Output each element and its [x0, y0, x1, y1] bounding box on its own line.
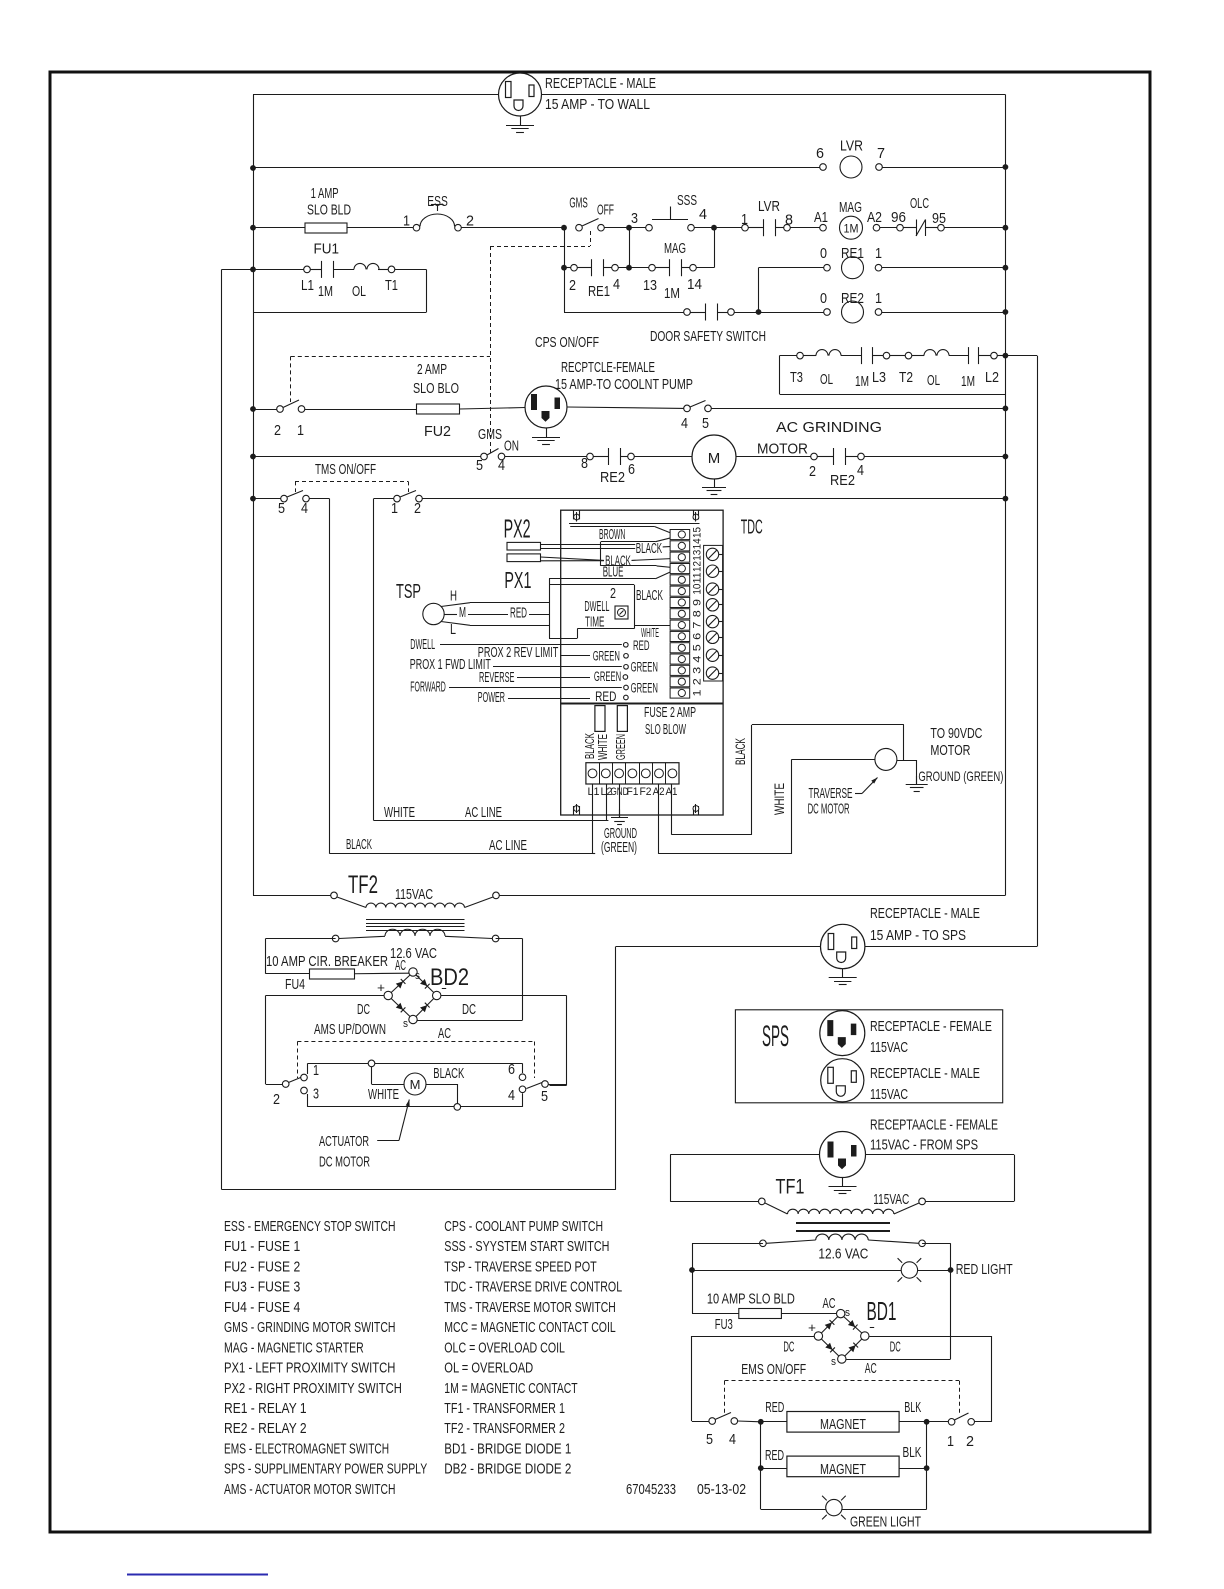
svg-text:LVR: LVR [840, 138, 863, 155]
svg-text:AMS UP/DOWN: AMS UP/DOWN [314, 1021, 386, 1038]
contact 1M right [968, 347, 970, 364]
wire right outer bus [1037, 356, 1039, 947]
svg-text:TMS - TRAVERSE MOTOR SWITCH: TMS - TRAVERSE MOTOR SWITCH [444, 1299, 615, 1316]
svg-text:8: 8 [785, 212, 793, 229]
svg-text:10 AMP CIR. BREAKER: 10 AMP CIR. BREAKER [266, 953, 388, 970]
node GMS common [561, 225, 567, 231]
switch ESS emergency stop [413, 224, 420, 231]
svg-text:6: 6 [816, 145, 824, 162]
linkage CPS dashed [290, 356, 292, 402]
svg-text:67045233: 67045233 [626, 1481, 676, 1498]
wire receptacle to switch 4-5 [567, 407, 684, 408]
switch door safety [684, 309, 691, 316]
svg-text:BLK: BLK [903, 1444, 922, 1461]
svg-text:5: 5 [278, 500, 285, 517]
svg-text:RE1: RE1 [588, 283, 610, 300]
coil RE2 [759, 312, 824, 314]
wire A2 white [658, 784, 660, 854]
svg-text:s: s [845, 1307, 850, 1319]
switch GMS 5-4 [481, 453, 488, 460]
wire bundle outline [549, 579, 551, 638]
wire white ac line [374, 820, 609, 822]
svg-text:TRAVERSE: TRAVERSE [809, 785, 853, 802]
svg-text:2: 2 [466, 213, 474, 230]
svg-text:6: 6 [628, 461, 635, 478]
svg-text:05-13-02: 05-13-02 [697, 1481, 746, 1498]
bridge rectifier BD2 [391, 975, 410, 993]
svg-text:TDC: TDC [741, 516, 763, 538]
fuse FU1 [305, 223, 347, 233]
svg-text:115VAC: 115VAC [873, 1191, 909, 1208]
svg-text:OL: OL [820, 371, 833, 388]
transformer TF2 primary [253, 895, 331, 897]
svg-text:A1: A1 [814, 209, 828, 226]
wire fu1 loop [253, 269, 304, 271]
svg-text:AC: AC [395, 957, 406, 974]
svg-text:1M = MAGNETIC CONTACT: 1M = MAGNETIC CONTACT [444, 1380, 577, 1397]
switch AMS right [542, 1081, 549, 1088]
svg-text:RECEPTACLE - MALE: RECEPTACLE - MALE [545, 75, 656, 92]
svg-text:A2: A2 [867, 209, 882, 226]
svg-text:1M: 1M [664, 285, 680, 302]
svg-text:BLACK: BLACK [732, 738, 748, 765]
svg-text:MAGNET: MAGNET [820, 1461, 866, 1478]
ams loop rails [308, 1063, 523, 1065]
svg-text:DOOR SAFETY SWITCH: DOOR SAFETY SWITCH [650, 328, 766, 345]
switch SSS system start [646, 224, 653, 231]
switch EMS 1-2 [927, 1421, 949, 1423]
svg-text:2: 2 [966, 1433, 974, 1450]
svg-text:AC: AC [823, 1295, 836, 1312]
svg-text:L3: L3 [872, 369, 886, 386]
svg-text:s: s [831, 1356, 836, 1368]
tdc mount tab top right [693, 510, 695, 519]
svg-text:DC: DC [357, 1001, 370, 1018]
svg-text:(GREEN): (GREEN) [601, 839, 637, 856]
svg-text:PX1: PX1 [504, 567, 531, 593]
svg-text:GMS: GMS [569, 195, 587, 212]
wire L2 to right [1005, 355, 1037, 357]
svg-text:FU4: FU4 [285, 976, 305, 993]
transformer TF1 primary [670, 1201, 758, 1203]
contact RE1 2-4 [571, 264, 578, 271]
svg-text:2: 2 [809, 463, 816, 480]
pin T3 [797, 352, 804, 359]
svg-text:FU3 - FUSE 3: FU3 - FUSE 3 [224, 1279, 300, 1296]
wire TSP H [441, 603, 470, 607]
svg-text:14: 14 [692, 538, 704, 549]
terminal strip 15 [670, 530, 690, 540]
controller TDC box [561, 510, 723, 815]
svg-text:SPS: SPS [762, 1020, 789, 1053]
wire ems to magnet [738, 1420, 761, 1423]
svg-text:FUSE 2 AMP: FUSE 2 AMP [644, 704, 696, 721]
svg-text:CPS ON/OFF: CPS ON/OFF [535, 334, 599, 351]
switch 4-5 [684, 405, 691, 412]
svg-text:WHITE: WHITE [771, 783, 787, 815]
svg-text:ON: ON [504, 438, 519, 455]
svg-text:OL = OVERLOAD: OL = OVERLOAD [444, 1360, 533, 1377]
svg-text:1: 1 [692, 690, 704, 697]
contact LVR [742, 224, 749, 231]
switch EMS 5-4 [691, 1420, 693, 1423]
svg-text:TSP - TRAVERSE SPEED POT: TSP - TRAVERSE SPEED POT [444, 1258, 596, 1275]
wire grinding row [253, 456, 481, 458]
svg-text:F1: F1 [627, 786, 639, 798]
contact RE2 8-6 [587, 453, 594, 460]
fuse FU4 [266, 973, 310, 975]
svg-text:14: 14 [687, 276, 702, 293]
power supply SPS box [735, 1010, 1002, 1103]
svg-text:9: 9 [692, 599, 704, 606]
svg-text:RE2 - RELAY 2: RE2 - RELAY 2 [224, 1420, 307, 1437]
svg-text:SPS - SUPPLIMENTARY POWER SUPP: SPS - SUPPLIMENTARY POWER SUPPLY [224, 1461, 427, 1478]
svg-text:BLACK: BLACK [433, 1065, 464, 1082]
wire top right [542, 94, 1006, 96]
wire L2 white [606, 784, 608, 821]
svg-text:H: H [450, 588, 457, 605]
svg-text:CPS - COOLANT PUMP SWITCH: CPS - COOLANT PUMP SWITCH [444, 1218, 603, 1235]
svg-text:s: s [403, 1018, 408, 1030]
svg-text:2: 2 [414, 500, 421, 517]
wire px leads [541, 544, 636, 546]
svg-text:FU2: FU2 [424, 423, 451, 440]
wire secondary left [266, 938, 336, 940]
svg-text:TF2: TF2 [348, 871, 378, 899]
wire TMS to bus [422, 498, 1005, 500]
node after SSS [711, 225, 717, 231]
svg-text:5: 5 [702, 415, 709, 432]
svg-text:3: 3 [313, 1086, 319, 1103]
contact 1M left [861, 347, 863, 364]
svg-text:1: 1 [875, 290, 882, 307]
pin L1 [304, 266, 311, 273]
motor M ac grinding [634, 456, 692, 458]
svg-text:TF2 - TRANSFORMER 2: TF2 - TRANSFORMER 2 [444, 1420, 565, 1437]
wire CPS to FU2 [305, 409, 417, 411]
wire to MAG coil [791, 227, 820, 229]
linkage GMS dashed [590, 231, 592, 246]
svg-text:10 AMP SLO BLD: 10 AMP SLO BLD [707, 1290, 795, 1307]
svg-text:3: 3 [631, 210, 638, 227]
svg-text:6: 6 [692, 633, 704, 640]
switch TMS 1-2 [374, 498, 394, 500]
svg-text:2 AMP: 2 AMP [417, 361, 447, 378]
svg-text:BLUE: BLUE [603, 563, 624, 580]
footer link line [127, 1574, 268, 1576]
svg-text:RE2: RE2 [600, 469, 625, 486]
receptacle J2 female coolant pump [525, 386, 567, 428]
wire main row [253, 227, 305, 229]
svg-text:15: 15 [692, 527, 704, 538]
svg-text:L2: L2 [985, 369, 999, 386]
svg-text:ESS: ESS [427, 193, 448, 210]
wire L1 black [592, 784, 594, 854]
svg-text:1: 1 [403, 213, 410, 230]
svg-text:TDC - TRAVERSE DRIVE CONTROL: TDC - TRAVERSE DRIVE CONTROL [444, 1279, 622, 1296]
svg-text:BLK: BLK [904, 1399, 921, 1416]
svg-text:BD1 - BRIDGE DIODE 1: BD1 - BRIDGE DIODE 1 [444, 1440, 571, 1457]
svg-text:1: 1 [297, 422, 304, 439]
wire bd2 minus [441, 995, 567, 997]
svg-text:T2: T2 [899, 369, 913, 386]
terminal strip lower [586, 763, 679, 784]
svg-text:2: 2 [274, 422, 281, 439]
wire A1 black [671, 784, 673, 835]
svg-text:GROUND (GREEN): GROUND (GREEN) [918, 768, 1003, 784]
wire GMS to node3 [605, 227, 646, 229]
svg-text:+: + [808, 1320, 816, 1335]
svg-text:4: 4 [301, 500, 308, 517]
wire motor to ground [897, 760, 917, 762]
svg-text:GMS - GRINDING MOTOR SWITCH: GMS - GRINDING MOTOR SWITCH [224, 1319, 395, 1336]
svg-text:L1: L1 [301, 277, 314, 294]
receptacle J1 male 15A to wall [499, 73, 542, 116]
svg-text:15 AMP-TO COOLNT PUMP: 15 AMP-TO COOLNT PUMP [555, 376, 693, 393]
wire motor to contact [736, 456, 811, 458]
svg-text:ESS - EMERGENCY STOP SWITCH: ESS - EMERGENCY STOP SWITCH [224, 1218, 395, 1235]
tdc mount tab bottom left [573, 806, 575, 815]
svg-text:DC: DC [890, 1339, 901, 1356]
wire black flag 2 [600, 542, 602, 566]
svg-text:MCC = MAGNETIC CONTACT COIL: MCC = MAGNETIC CONTACT COIL [444, 1319, 615, 1336]
svg-text:5: 5 [706, 1431, 713, 1448]
svg-text:TF1: TF1 [776, 1176, 805, 1199]
svg-text:6: 6 [508, 1061, 515, 1078]
svg-text:RE1 - RELAY 1: RE1 - RELAY 1 [224, 1400, 307, 1417]
svg-text:5: 5 [692, 644, 704, 651]
wire door safety row [564, 312, 684, 314]
svg-text:DC MOTOR: DC MOTOR [808, 801, 850, 818]
receptacle sps male [821, 1059, 864, 1102]
coil RE1 [759, 267, 824, 269]
svg-text:FU3: FU3 [715, 1316, 733, 1333]
linkage TMS dashed [295, 481, 297, 492]
svg-text:SLO BLO: SLO BLO [413, 380, 459, 397]
svg-text:15 AMP - TO WALL: 15 AMP - TO WALL [545, 96, 650, 113]
fuse FU2 [417, 404, 460, 414]
svg-text:MAG: MAG [664, 240, 686, 257]
svg-text:12.6 VAC: 12.6 VAC [818, 1246, 868, 1263]
svg-text:AC GRINDING: AC GRINDING [776, 419, 882, 436]
wire TSP M red [444, 614, 457, 616]
svg-text:ACTUATOR: ACTUATOR [319, 1133, 369, 1150]
contact RE2 2-4 [811, 453, 818, 460]
svg-text:REVERSE: REVERSE [479, 669, 515, 686]
svg-text:M: M [459, 604, 466, 621]
svg-text:L: L [450, 621, 456, 638]
tdc mount tab bottom right [693, 806, 695, 815]
svg-text:FU1 - FUSE 1: FU1 - FUSE 1 [224, 1238, 300, 1255]
svg-text:115VAC: 115VAC [870, 1086, 908, 1103]
svg-text:1M: 1M [844, 223, 859, 235]
svg-text:RE1: RE1 [841, 245, 864, 262]
motor M actuator [371, 1067, 373, 1084]
ams loop right [519, 1074, 526, 1081]
switch GMS grinding motor [576, 224, 583, 231]
potentiometer TSP traverse speed [423, 603, 444, 624]
svg-text:0: 0 [820, 290, 827, 307]
overload coil OLC [897, 224, 904, 231]
pin L2 [991, 352, 998, 359]
ams loop left [301, 1074, 308, 1081]
transformer TF2 secondary [332, 935, 339, 942]
transformer TF1 core [796, 1222, 890, 1224]
svg-text:4: 4 [613, 276, 620, 293]
svg-text:PX2 - RIGHT PROXIMITY SWITCH: PX2 - RIGHT PROXIMITY SWITCH [224, 1380, 402, 1397]
receptacle sps female [820, 1011, 865, 1056]
electromagnet 2 [787, 1456, 899, 1477]
svg-text:EMS ON/OFF: EMS ON/OFF [741, 1361, 806, 1378]
wire OLC to bus [945, 227, 1006, 229]
svg-text:PX2: PX2 [504, 514, 531, 544]
wire outer box left [221, 269, 223, 1189]
svg-text:F2: F2 [640, 786, 652, 798]
svg-text:1M: 1M [318, 283, 333, 300]
svg-text:RE2: RE2 [841, 290, 864, 307]
svg-text:OL: OL [352, 283, 366, 300]
wire TMS left down [309, 498, 329, 500]
svg-text:MOTOR: MOTOR [757, 441, 808, 458]
svg-text:1: 1 [875, 245, 882, 262]
svg-text:GREEN LIGHT: GREEN LIGHT [850, 1514, 921, 1531]
svg-text:OL: OL [927, 372, 940, 389]
wire to OLC [880, 227, 897, 229]
linkage ams dashed [297, 1041, 534, 1043]
fuse F1 tdc [595, 706, 605, 732]
svg-text:BLACK: BLACK [346, 836, 372, 853]
switch AMS left [266, 1084, 283, 1086]
svg-text:0: 0 [820, 245, 827, 262]
svg-text:1: 1 [391, 500, 398, 517]
svg-text:DC: DC [783, 1339, 794, 1356]
svg-text:4: 4 [857, 462, 864, 479]
wire GND green [619, 784, 621, 818]
svg-text:RE2: RE2 [830, 472, 855, 489]
bridge rectifier BD1 [821, 1317, 837, 1333]
svg-text:DC MOTOR: DC MOTOR [319, 1153, 370, 1170]
wire bd1 minus [869, 1336, 991, 1338]
svg-text:1M: 1M [961, 373, 975, 390]
svg-text:AC LINE: AC LINE [489, 837, 527, 854]
linkage ems dashed [725, 1380, 960, 1382]
svg-text:BLACK: BLACK [636, 587, 663, 604]
svg-text:OLC = OVERLOAD COIL: OLC = OVERLOAD COIL [444, 1339, 565, 1356]
svg-text:12: 12 [692, 561, 704, 572]
wire to LVR contact [714, 227, 742, 229]
lamp green light [761, 1509, 826, 1511]
svg-text:FU2 - FUSE 2: FU2 - FUSE 2 [224, 1258, 300, 1275]
svg-text:4: 4 [498, 457, 505, 474]
svg-text:4: 4 [729, 1431, 736, 1448]
svg-text:TO 90VDC: TO 90VDC [930, 725, 982, 742]
pin T2 [905, 352, 912, 359]
svg-text:1: 1 [741, 211, 748, 228]
pin L3 [883, 352, 890, 359]
svg-text:4: 4 [692, 656, 704, 663]
svg-text:4: 4 [699, 206, 707, 223]
electromagnet 1 [787, 1412, 899, 1433]
svg-text:-: - [869, 1319, 875, 1334]
svg-text:BD2: BD2 [430, 964, 469, 991]
svg-text:AMS - ACTUATOR MOTOR SWITCH: AMS - ACTUATOR MOTOR SWITCH [224, 1481, 395, 1498]
wire black ac line [330, 853, 596, 855]
svg-text:RED: RED [595, 689, 616, 704]
svg-text:FU4 - FUSE 4: FU4 - FUSE 4 [224, 1299, 300, 1316]
svg-text:10: 10 [692, 584, 704, 595]
svg-text:GREEN: GREEN [631, 681, 658, 696]
svg-text:MAG - MAGNETIC STARTER: MAG - MAGNETIC STARTER [224, 1339, 364, 1356]
svg-text:1M: 1M [855, 373, 869, 390]
svg-text:2: 2 [692, 678, 704, 685]
svg-text:WHITE: WHITE [595, 734, 610, 760]
svg-text:T1: T1 [385, 277, 398, 294]
wire overload row [780, 355, 797, 357]
svg-text:OFF: OFF [597, 202, 614, 219]
wire 14 to node4 [696, 267, 714, 269]
svg-text:115VAC - FROM SPS: 115VAC - FROM SPS [870, 1137, 978, 1154]
fuse F2 tdc [617, 706, 627, 732]
transformer TF2 core [366, 919, 465, 921]
wire LVR row [253, 167, 820, 169]
wire TSP L [441, 622, 470, 626]
svg-text:DWELL: DWELL [410, 636, 435, 653]
svg-text:GREEN: GREEN [594, 669, 621, 684]
svg-text:RED: RED [765, 1447, 784, 1464]
svg-text:115VAC: 115VAC [395, 886, 433, 903]
svg-text:RED: RED [510, 605, 527, 622]
wire to RE2 contact [505, 456, 587, 458]
svg-text:1 AMP: 1 AMP [311, 185, 339, 202]
wire overload loop [779, 356, 781, 394]
wire bd2 plus [266, 995, 384, 997]
switch TMS 5-4 [253, 498, 281, 500]
svg-text:SSS - SYYSTEM START SWITCH: SSS - SYYSTEM START SWITCH [444, 1238, 609, 1255]
svg-text:2: 2 [610, 585, 616, 602]
tdc mount tab top left [573, 510, 575, 519]
svg-text:15 AMP - TO SPS: 15 AMP - TO SPS [870, 927, 966, 944]
svg-text:1: 1 [947, 1433, 954, 1450]
svg-text:4: 4 [508, 1087, 515, 1104]
svg-text:PX1 - LEFT PROXIMITY SWITCH: PX1 - LEFT PROXIMITY SWITCH [224, 1360, 395, 1377]
wire top left [253, 94, 499, 96]
svg-text:4: 4 [681, 415, 688, 432]
svg-text:RED: RED [765, 1399, 784, 1416]
svg-text:TMS ON/OFF: TMS ON/OFF [315, 461, 376, 478]
wire tf1 sec left [692, 1243, 763, 1245]
svg-text:5: 5 [476, 457, 483, 474]
motor traverse dc [875, 748, 897, 770]
svg-text:BROWN: BROWN [599, 526, 625, 543]
switch CPS 2-1 [253, 409, 277, 411]
svg-text:13: 13 [643, 277, 657, 294]
svg-text:GREEN: GREEN [631, 659, 658, 674]
contact 1M 13-14 [649, 264, 656, 271]
svg-text:5: 5 [541, 1088, 548, 1105]
wire outer box right [615, 947, 617, 1190]
svg-text:MOTOR: MOTOR [930, 742, 970, 759]
svg-text:WHITE: WHITE [384, 804, 415, 821]
wire sps receptacle right [865, 946, 1037, 948]
svg-text:7: 7 [692, 622, 704, 629]
coil MAG starter 1M [820, 224, 827, 231]
overload OL right [924, 350, 936, 356]
wire to sps receptacle [616, 946, 821, 948]
wire to bus [864, 456, 1005, 458]
svg-text:115VAC: 115VAC [870, 1039, 908, 1056]
svg-text:TF1 - TRANSFORMER 1: TF1 - TRANSFORMER 1 [444, 1400, 565, 1417]
svg-text:RED LIGHT: RED LIGHT [956, 1261, 1013, 1278]
